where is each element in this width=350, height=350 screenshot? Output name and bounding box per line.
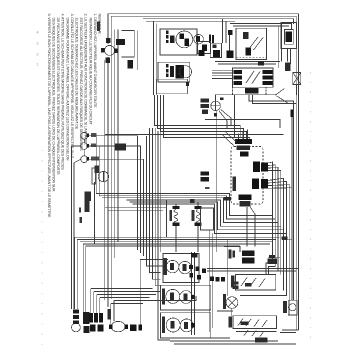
switch box B — [158, 62, 190, 82]
oven lamp left dot — [109, 324, 112, 329]
small mark a — [79, 208, 81, 213]
wire: right drop r1 — [278, 26, 280, 68]
K1 armature blob — [246, 47, 252, 55]
device hatch 2 — [83, 312, 90, 324]
svg-text:1. DEBRANCHEZ L'APPAREIL AVANT: 1. DEBRANCHEZ L'APPAREIL AVANT D'AMORCER… — [93, 14, 97, 108]
wire: right label tick 2 — [268, 257, 280, 259]
X2 diagonal 2 — [293, 73, 301, 85]
wire: clock fan 1d — [268, 171, 281, 275]
wire: right corner run 2 — [252, 95, 296, 104]
fuse box X2 — [293, 73, 301, 85]
K1 dashed base — [236, 56, 267, 58]
wire: relay drop 1 — [222, 19, 224, 44]
wire: A3 — [102, 198, 278, 223]
wire: B2 — [77, 240, 276, 249]
connector J1 — [210, 43, 221, 57]
wire: pilot feed v — [226, 240, 228, 296]
wire: right label tick 1 — [282, 239, 292, 241]
sensor label box — [92, 168, 96, 184]
outer box left edge double — [153, 21, 155, 95]
clock right connector 2 — [252, 178, 259, 189]
wire: element box outer — [137, 31, 139, 71]
SW2 wedge 1 — [170, 293, 174, 300]
wire: S9 bottom corner — [295, 315, 297, 330]
wire: blob feed — [140, 258, 168, 260]
notes text block (rotated French service notes) — [47, 14, 102, 218]
pin ticks B col1 — [166, 64, 169, 68]
wire: sensor drop — [94, 182, 96, 244]
svg-text:1: 1 — [37, 63, 39, 67]
SW1 wedge 2 — [183, 264, 187, 271]
SW3 contact blob — [191, 323, 195, 327]
K1 contact diagonal 1 — [249, 37, 259, 50]
wire: E2 top lead — [197, 202, 199, 206]
switch rotor B — [179, 66, 191, 78]
label BRA row1 — [201, 99, 210, 103]
wire: N1 fan 2 — [219, 111, 227, 129]
wire: stack bottom run 3 — [174, 343, 296, 345]
wire: E1 top lead — [175, 204, 177, 206]
wire: B2 drop — [76, 246, 78, 309]
wire: lamp feed runs — [111, 303, 143, 305]
small rect above SW1 — [191, 253, 197, 257]
node X below A2 — [198, 50, 204, 56]
wire: right corner run 1 — [249, 95, 294, 300]
wire: A2 — [99, 196, 275, 219]
wire: clock feed diag 1 — [225, 132, 237, 143]
label top-left wire — [97, 22, 100, 31]
wire: pilot stem — [231, 308, 233, 315]
connector row blob lower 1 — [90, 325, 95, 332]
wire: sensor horizontal — [216, 95, 275, 101]
TR dark contacts — [286, 32, 292, 43]
small box right of A2 — [198, 42, 211, 54]
svg-text:REPARATION. LE SECTEUR RELIE A: REPARATION. LE SECTEUR RELIE AU COUVRE-F… — [88, 18, 92, 126]
wire: pilot bottom run — [217, 310, 233, 312]
wire: tb3 row — [236, 331, 276, 333]
switch box A — [160, 29, 197, 55]
wire: C2 — [158, 95, 244, 139]
wire: T3 right run — [88, 159, 144, 256]
wire: A1 — [96, 194, 272, 216]
wire: E1 bottom down — [175, 226, 177, 252]
wire: clock bottom fan b — [250, 207, 255, 247]
node terminal T3 — [81, 156, 88, 163]
wire: M-harness 3 — [152, 128, 160, 279]
oven lamp label — [108, 309, 111, 319]
wire: K2 drop to clock — [234, 95, 236, 138]
wire: clock fan 2c — [268, 185, 289, 316]
margin note digits — [37, 31, 39, 67]
X2 label — [285, 62, 290, 71]
transistor bar tick — [290, 109, 293, 116]
box below B — [157, 79, 188, 94]
heater element hatch upper — [116, 39, 125, 45]
wire: clock fan 2b — [240, 181, 286, 295]
wire: left harness L2 — [110, 16, 112, 299]
door switch S9 — [289, 304, 296, 311]
wire: sensor vertical — [291, 117, 293, 300]
wire: T1 right run — [88, 136, 138, 250]
K2 base arrow — [245, 88, 259, 93]
TB1 diag 2 — [250, 278, 256, 287]
wire: M-harness 1 — [147, 136, 163, 266]
device blob 2b — [83, 326, 89, 333]
wire: top nested line 4 — [146, 20, 235, 22]
wire: drop to connectors c — [96, 295, 98, 313]
wire: node drop b — [98, 146, 100, 196]
wire: term bloc box top — [224, 246, 240, 252]
ground mark — [79, 217, 82, 223]
E1 bottom cap — [172, 222, 179, 226]
interlock box TR — [281, 22, 296, 48]
wire: E2 bottom down — [197, 226, 199, 252]
wire: K2 feed 4 — [212, 77, 232, 79]
tb feed label — [268, 258, 278, 263]
wire: left harness L1 — [107, 14, 109, 44]
pilot lamp label — [223, 294, 226, 309]
wire: C5 long to right — [105, 134, 284, 136]
K1 left lead blob — [228, 30, 232, 35]
wire: clock bottom fan a — [246, 207, 248, 247]
E2 bottom cap — [195, 222, 202, 226]
tick label mid — [205, 187, 209, 189]
N1 bottom tick — [214, 113, 217, 116]
connector CN4 mid — [201, 171, 209, 175]
T1 label — [91, 133, 97, 137]
wire: tb feed 1 — [207, 267, 299, 269]
wire: B5 drop — [85, 246, 87, 322]
terminal block TB1 — [235, 274, 275, 290]
wire: X2 bottom lead — [296, 85, 298, 96]
lamp L cap — [73, 321, 79, 324]
K1 coil dashes — [243, 32, 248, 39]
N1 top tick — [220, 98, 224, 100]
SW2 rotor 1 — [166, 289, 180, 303]
label BRA row2 — [201, 104, 210, 108]
wire: drop to connectors d — [99, 298, 101, 313]
TB1 marks — [245, 283, 252, 286]
lower-left label 2 — [85, 200, 90, 212]
rotor A wedge 2 — [185, 39, 190, 47]
bake element E1 coil — [174, 210, 178, 224]
pin ticks A col1 — [166, 31, 169, 34]
SW2 wedge 2 — [184, 293, 188, 300]
X2 diagonal 1 — [293, 73, 301, 85]
SW2 rotor 2 — [180, 291, 193, 304]
T3 label — [91, 157, 100, 161]
wire: N1 down — [216, 111, 218, 252]
wire: top nested line 3 — [143, 19, 294, 24]
N1 cross h — [211, 105, 221, 107]
SW1 rotor 2 — [179, 261, 191, 273]
wire: A5 — [129, 202, 283, 230]
E1 top cap — [172, 206, 179, 209]
svg-text:ELECTRIQUES. DEBRANCHEZ LES CA: ELECTRIQUES. DEBRANCHEZ LES CABLES DE ME… — [75, 18, 79, 130]
wire: clock feed diag 2 — [222, 135, 234, 146]
term bloc label — [228, 249, 231, 258]
connector blob row right of SW1 — [210, 277, 214, 281]
wire: left drop line 2 — [73, 163, 75, 309]
E1 label — [169, 210, 172, 221]
SW2 label — [162, 288, 165, 304]
wire: T2 right run — [88, 146, 141, 253]
connector above TB1 — [242, 251, 255, 256]
clock top arrow — [240, 151, 248, 156]
wire: K2 feed 1 — [212, 69, 232, 71]
right label R2 — [269, 255, 275, 258]
terminal block TB2 — [233, 316, 276, 329]
clock label — [233, 176, 236, 190]
wire: TR down lead 1 — [287, 49, 289, 62]
svg-text:4: 4 — [37, 31, 39, 35]
SW3 rotor 2 — [180, 319, 193, 332]
wire: left harness L1 lower — [107, 57, 109, 307]
right label R — [282, 237, 288, 240]
svg-text:EST RACCORDE AU SECTEUR, PRENE: EST RACCORDE AU SECTEUR, PRENEZ GARDE AU… — [79, 18, 83, 152]
K2 contact diagonal 1 — [246, 71, 254, 83]
wire: top nested line 6 — [233, 25, 289, 27]
connector above motor — [106, 38, 110, 43]
wire: drop to connectors a — [90, 289, 92, 313]
svg-text:DES RISQUES DE SECOUSSES ELECT: DES RISQUES DE SECOUSSES ELECTRIQUES, PR… — [52, 18, 56, 192]
element box top-left — [121, 31, 134, 58]
wire: C3 — [161, 95, 247, 141]
sensor label text — [95, 166, 100, 173]
wire: stack bottom run 2 — [170, 340, 278, 342]
wire: clock fan 1b — [268, 165, 275, 275]
wire: top border inner — [111, 16, 296, 330]
oven lamp ellipse — [111, 321, 125, 331]
T2 dot — [86, 144, 89, 148]
wire: lamp feeds — [110, 304, 112, 324]
rotor B dark core — [175, 65, 184, 79]
oven lamp right dot — [124, 324, 127, 329]
T2 label — [91, 143, 97, 147]
SW3 wedge 2 — [184, 322, 188, 329]
TB2 diag dashes — [238, 319, 243, 326]
wire: K2 feed 2 — [212, 72, 232, 74]
clock module A1 dashed box — [231, 147, 263, 205]
switch SW1 box — [163, 254, 199, 283]
stack wire v1 — [191, 252, 193, 335]
TB2 marks — [241, 322, 249, 326]
wire: TR down lead 2 — [290, 49, 292, 64]
connector below motor — [105, 58, 110, 63]
SW2 contact blob — [191, 295, 195, 299]
lamp G2 — [226, 297, 238, 309]
wire: A4 — [126, 200, 280, 226]
lamp L lower circle — [72, 323, 81, 332]
wire: left harness L4 — [117, 30, 119, 243]
K2 left contact blobs — [234, 70, 243, 74]
box right of E2 — [201, 208, 214, 230]
switch rotor A — [176, 31, 193, 48]
TB1 label — [231, 275, 235, 287]
pilot right label — [233, 282, 239, 285]
wire: N1 fan 1 — [221, 110, 231, 127]
TB1 diag 1 — [241, 278, 247, 287]
label on A1 line — [224, 197, 231, 201]
switch SW2 box — [160, 285, 210, 310]
wire: clock fan 1a — [266, 162, 272, 274]
wire: element feed row 1 — [105, 207, 167, 209]
lamp pair right — [130, 324, 137, 331]
motor M1 — [105, 45, 115, 55]
pin ticks A col2 — [170, 35, 175, 43]
clock top stems — [238, 134, 240, 139]
S9 box — [288, 300, 297, 315]
clock top connector cluster — [235, 139, 252, 144]
svg-text:4. ATTENTION, LE SCHEMA PEUT E: 4. ATTENTION, LE SCHEMA PEUT ETRE MODIFI… — [61, 14, 65, 171]
tb3 dashes — [244, 330, 248, 336]
wire: tb feed 2 — [207, 270, 296, 272]
wire: label row under relay — [215, 61, 280, 63]
stack wire v4 — [212, 233, 214, 328]
wire: M-harness 5 — [158, 131, 170, 340]
wire: blob drop — [139, 259, 141, 324]
wire: B1 — [75, 237, 280, 246]
node terminal T1 — [81, 132, 88, 139]
SW1 wedge 1 — [170, 263, 174, 270]
J1 pin mark — [212, 45, 216, 48]
relay box K2 — [232, 68, 273, 87]
wire: C1 — [155, 95, 241, 137]
wire: left harness L5 — [104, 60, 106, 300]
wire: drop to connectors b — [93, 292, 95, 313]
wire: M-harness 6 — [160, 131, 162, 252]
sensor cross — [102, 171, 104, 181]
pin ticks B col2 — [170, 66, 174, 77]
svg-text:DIAGRAMME FOURNI AVEC L'APPARE: DIAGRAMME FOURNI AVEC L'APPAREIL DIFFERE… — [65, 18, 69, 161]
wire: right drop r2 — [280, 24, 282, 62]
K2 contact diagonal 2 — [252, 72, 260, 84]
SW1 contact blobs — [189, 265, 193, 269]
wire: connector feed runs — [91, 288, 153, 290]
wire: B3 — [80, 241, 273, 243]
TB1 diag 3 — [259, 279, 265, 288]
tb3 label — [255, 338, 267, 343]
S9 label — [283, 301, 287, 313]
wire: K1 left lead — [229, 35, 231, 58]
motor M1 terminal left — [101, 48, 104, 53]
label BRA row3 — [202, 109, 208, 113]
oven sensor circle — [98, 171, 108, 181]
wire: M-harness 2 — [150, 128, 161, 273]
K1 contact diagonal 2 — [254, 38, 264, 51]
G2 cross — [228, 299, 236, 307]
N1 cross v — [215, 101, 217, 111]
wire: A6 — [132, 204, 286, 233]
wire: B1 drop — [74, 244, 76, 309]
motor M1 terminal right — [114, 48, 117, 53]
T1 dot — [86, 134, 89, 138]
wire: B4 drop — [82, 244, 84, 312]
wire: B5 partial — [86, 246, 240, 252]
tick bars right of A2 — [209, 35, 211, 44]
wire: clock fan 2a — [268, 178, 283, 290]
TB2 label — [228, 317, 232, 328]
dark marks in small box — [202, 44, 207, 51]
wire: bottom-right corner return — [282, 329, 299, 331]
K2 right contact blobs — [262, 70, 272, 74]
wire: relay drop 2 — [225, 21, 227, 43]
wire: M-harness 4 — [155, 128, 160, 286]
rotor A2 wedge — [196, 36, 200, 42]
wire: K2 feed 3 — [212, 75, 232, 77]
tick on box below B — [186, 82, 189, 86]
label under relay — [258, 61, 264, 66]
element enclosure box left edge — [166, 200, 168, 237]
transistor diagonal down — [277, 96, 289, 104]
wire: top border outer — [108, 14, 299, 330]
rotor A wedge 1 — [180, 33, 184, 38]
perforation dotted line left — [41, 150, 43, 348]
svg-text:2. LE SECTEUR UNIQUEMENT AUX F: 2. LE SECTEUR UNIQUEMENT AUX FONCTIONS D… — [84, 14, 88, 146]
SW3 wedge 1 — [170, 321, 174, 328]
wire: clock fan 1c — [268, 168, 278, 271]
connector row blob 3 — [99, 313, 103, 322]
wire: node drop a — [95, 136, 97, 194]
wire: label row 2 under relay — [218, 63, 276, 65]
T3 dot — [86, 157, 89, 161]
svg-text:DE RECHANGE IDENTIQUES ET GARA: DE RECHANGE IDENTIQUES ET GARANTIES. TOU… — [56, 18, 60, 176]
K2 dashed base — [232, 87, 266, 94]
wire: C0 — [205, 120, 280, 129]
wire: left drop line — [71, 145, 80, 147]
svg-text:5. VERIFIER LE BON FONCTIONNEM: 5. VERIFIER LE BON FONCTIONNEMENT DE L'A… — [47, 14, 51, 218]
relay box K1 — [236, 28, 267, 59]
connector row blob 2 — [94, 313, 98, 322]
wire: left harness L3 — [114, 30, 116, 259]
wire: C4 — [164, 95, 250, 142]
svg-text:3. CONSULTEZ LE SCHEMA DE CABL: 3. CONSULTEZ LE SCHEMA DE CABLAGE APPROP… — [70, 14, 74, 160]
clock right connector 1 — [253, 162, 260, 173]
wire: clock fan 2d — [268, 187, 292, 189]
J1 contacts — [213, 50, 220, 57]
E2 label — [192, 210, 195, 221]
lower-left label 1 — [84, 191, 90, 201]
svg-text:2: 2 — [37, 53, 39, 57]
broil element E2 coil — [196, 210, 200, 224]
switch rotor A2 — [194, 34, 204, 44]
perforation dotted line right — [310, 72, 312, 345]
svg-text:3: 3 — [37, 42, 39, 46]
wire: element feed row 2 — [108, 209, 163, 211]
connector label mid-left — [114, 144, 125, 151]
SW3 rotor 1 — [166, 318, 180, 332]
SW1 rotor 1 — [166, 260, 178, 272]
K1 left arrow wedge — [227, 50, 234, 57]
SW1 label — [164, 258, 167, 275]
SW3 label — [162, 317, 165, 333]
wire: B4 — [83, 244, 270, 250]
wire: left edge main — [83, 139, 85, 142]
transistor diagonal up — [275, 89, 284, 96]
connector row blob lower 2 — [98, 325, 104, 332]
heater element hatch lower — [127, 60, 133, 68]
small blob right — [138, 325, 142, 331]
wire: top nested line 5 — [230, 24, 291, 29]
node terminal T2 — [81, 143, 88, 150]
TR inner box — [284, 30, 293, 45]
motor node N1 — [211, 101, 221, 111]
stack wire v3 — [209, 230, 211, 332]
wire: stack bottom run 1 — [166, 337, 230, 339]
left pair hatch — [73, 309, 79, 313]
clock bottom connector — [239, 194, 252, 199]
connector row blob 1 — [89, 313, 93, 322]
